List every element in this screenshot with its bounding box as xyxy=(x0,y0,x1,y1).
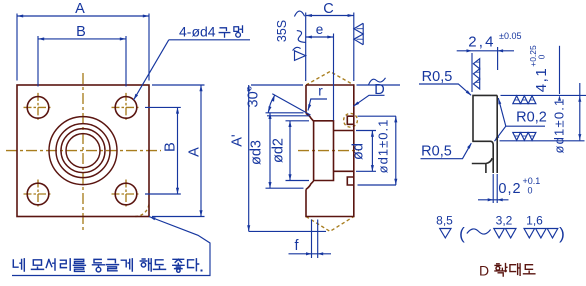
bolt hole top-left xyxy=(27,97,49,119)
left face surface note: parenthesis xyxy=(293,47,301,50)
dim od2: extensions xyxy=(286,120,310,122)
svg-text:A': A' xyxy=(230,134,246,147)
dim A top: dimension line xyxy=(17,15,149,17)
dim B right: dimension line xyxy=(177,107,179,194)
detail: extension groove face left xyxy=(471,53,473,92)
detail: hatched triangles below top-face ext line xyxy=(513,96,521,104)
dim C: extension line left (with surface note) xyxy=(305,13,307,82)
hangul ge (note) xyxy=(121,259,132,271)
detail: top face extension line xyxy=(501,94,586,96)
svg-text:35S: 35S xyxy=(275,20,289,42)
dim B top: dimension line xyxy=(38,38,126,40)
note box leader from corner xyxy=(12,217,210,276)
dim A right: dimension line xyxy=(200,85,202,217)
dim od: dimension line xyxy=(371,131,373,172)
dim B top: extension lines xyxy=(37,36,39,87)
svg-text:ød: ød xyxy=(351,143,367,160)
dim Aprime: dimension line xyxy=(248,85,250,231)
section bore od line top xyxy=(334,130,354,132)
dim od: extensions xyxy=(356,130,376,132)
svg-text:30°: 30° xyxy=(246,86,262,108)
svg-text:ød1±0.1: ød1±0.1 xyxy=(552,97,567,153)
svg-text:ød1±0.1: ød1±0.1 xyxy=(376,119,391,174)
svg-text:e: e xyxy=(316,22,324,37)
svg-text:ød2: ød2 xyxy=(271,138,287,163)
hangul hwak (title) xyxy=(495,264,507,277)
phantom V point, bottom of section xyxy=(306,217,354,232)
hangul ne (note) xyxy=(13,259,24,271)
dim B right: extension lines xyxy=(145,106,181,108)
svg-text:): ) xyxy=(559,224,565,243)
svg-text:R0,5: R0,5 xyxy=(421,144,452,160)
detail D: lower face with R0,5 entry xyxy=(472,158,492,173)
detail: dim od1 line xyxy=(579,83,581,140)
hangul dae (title) xyxy=(510,264,520,276)
leader r (fillet radius) xyxy=(308,99,327,111)
svg-text:4,1: 4,1 xyxy=(533,67,550,92)
svg-text:±0.05: ±0.05 xyxy=(499,31,521,41)
detail D boundary circle xyxy=(344,113,358,127)
svg-text:D: D xyxy=(374,82,384,98)
svg-text:0: 0 xyxy=(537,54,547,59)
detail: hatched triangles above groove-bottom ext line xyxy=(513,132,521,140)
hangul geul (note) xyxy=(107,259,119,270)
phantom peak, top of section (bar stock corner) xyxy=(306,72,354,86)
roughness note: two triangles 3,2 xyxy=(494,229,516,238)
svg-text:C: C xyxy=(323,1,333,17)
dim od2: dimension line xyxy=(289,121,291,181)
svg-text:A: A xyxy=(187,147,203,157)
hole centerline cross at 38,107.4 xyxy=(24,106,53,108)
svg-text:0,2: 0,2 xyxy=(498,181,521,197)
dim A top: extension lines xyxy=(16,14,18,81)
bolt hole bottom-right xyxy=(115,183,137,205)
hangul ri (note) xyxy=(60,259,70,270)
optional rounded corner arc (bottom-right of flange) xyxy=(135,203,149,217)
svg-text:D: D xyxy=(479,263,489,279)
wave symbol on top face line xyxy=(369,78,386,85)
center bore circle outer xyxy=(49,117,117,185)
svg-text:4-ød4: 4-ød4 xyxy=(179,24,216,40)
dim od1 section: dimension line xyxy=(395,116,397,185)
roughness note: three triangles 1,6 xyxy=(524,229,558,238)
hangul mo (note) xyxy=(32,260,44,270)
30 deg angle: horizontal leg xyxy=(267,115,310,117)
surface symbol double triangles on C right extension xyxy=(354,23,363,45)
detail: extension bore wall right xyxy=(497,47,499,70)
hangul do (title) xyxy=(523,265,534,274)
svg-text:+0.1: +0.1 xyxy=(523,176,541,186)
svg-text:ød3: ød3 xyxy=(249,140,265,165)
detail: dim 0,2 line xyxy=(478,199,509,201)
hangul dung (note) xyxy=(93,259,105,272)
leader 4-od4 holes xyxy=(134,40,250,100)
dim e: extension line right into bore xyxy=(333,34,335,121)
detail: leader R0,5 top xyxy=(419,84,471,95)
hole centerline cross at 126,107.4 xyxy=(112,106,141,108)
svg-text:R0,5: R0,5 xyxy=(422,69,453,85)
30 deg angle: slanted leg (chamfer extension) xyxy=(272,94,310,115)
30 deg angle: dimension arc xyxy=(268,95,274,112)
detail D: groove profile (top face, left face, bottom with R0,2 corner, step line) xyxy=(473,95,497,173)
leader D (detail) xyxy=(353,95,384,106)
centerline vertical, left view xyxy=(82,73,84,233)
hangul da (note) xyxy=(188,259,199,271)
relief groove top (detail D) xyxy=(347,116,354,124)
svg-text:A: A xyxy=(75,1,85,17)
dim e: dimension line xyxy=(306,36,334,38)
hole centerline cross at 38,194 xyxy=(24,193,53,195)
dim Aprime: extension top xyxy=(251,84,303,86)
hole centerline cross at 126,194 xyxy=(112,193,141,195)
hangul meong (hole) xyxy=(234,26,243,37)
section bore od2 step xyxy=(314,121,334,181)
centerline horizontal, left view xyxy=(6,150,161,152)
dim Aprime: extension bottom at V tip xyxy=(249,230,326,232)
left face surface note: closing parenthesis xyxy=(294,11,304,16)
hangul do (note) xyxy=(154,260,166,270)
svg-text:R0,2: R0,2 xyxy=(516,110,547,126)
dim od3: dimension line xyxy=(269,113,271,188)
flange square outline, front view xyxy=(17,85,149,217)
svg-text:(: ( xyxy=(459,224,465,243)
dim f: extensions xyxy=(311,220,313,259)
hangul reul (note) xyxy=(73,259,85,271)
dim od3: extensions xyxy=(266,112,304,114)
hangul gu (hole) xyxy=(219,28,230,37)
dim C: extension line right xyxy=(353,13,355,82)
dim C: dimension line xyxy=(306,15,354,17)
dim f: dimension line xyxy=(289,253,332,255)
section view outer profile xyxy=(306,85,354,217)
svg-text:2,4: 2,4 xyxy=(468,34,495,51)
hangul seo (note) xyxy=(46,259,55,270)
svg-text:8,5: 8,5 xyxy=(436,214,453,228)
svg-text:1,6: 1,6 xyxy=(526,214,543,228)
detail: hatched triangle column on groove face ext xyxy=(473,59,479,69)
detail: leader R0,5 bottom xyxy=(421,143,472,159)
detail: leader R0,2 xyxy=(495,98,546,141)
detail D: bore wall xyxy=(496,95,498,173)
svg-text:B: B xyxy=(76,24,86,40)
centerline horizontal, section view xyxy=(298,150,359,152)
svg-text:B: B xyxy=(163,142,179,152)
detail: dim 2,4 line xyxy=(457,50,514,52)
roughness note: single triangle 8,5 xyxy=(440,229,451,238)
hangul hae (note) xyxy=(140,259,151,271)
left face surface note: triangle xyxy=(295,51,306,61)
svg-text:r: r xyxy=(318,84,323,99)
arrows xyxy=(17,14,23,17)
svg-text:3,2: 3,2 xyxy=(496,214,513,228)
surface wave line top right of section xyxy=(357,84,401,86)
detail: dim 0,2 extensions xyxy=(492,174,494,203)
hangul joh (note) xyxy=(173,259,184,272)
bolt hole top-right xyxy=(115,97,137,119)
svg-text:0: 0 xyxy=(528,186,533,196)
relief groove bottom xyxy=(347,177,354,185)
center circle inner xyxy=(66,134,100,168)
roughness note: tilde xyxy=(467,229,491,234)
dim od1 section: extensions xyxy=(358,115,397,117)
section bore od line bottom xyxy=(334,170,354,172)
bolt hole bottom-left xyxy=(27,183,49,205)
center circle 2 xyxy=(56,124,110,178)
detail: groove bottom extension line xyxy=(500,140,585,142)
center circle 3 xyxy=(61,129,105,173)
left face surface note: wave xyxy=(297,31,306,43)
dim A right: extension lines xyxy=(152,84,205,86)
detail: dim 4,1 line xyxy=(559,46,561,94)
